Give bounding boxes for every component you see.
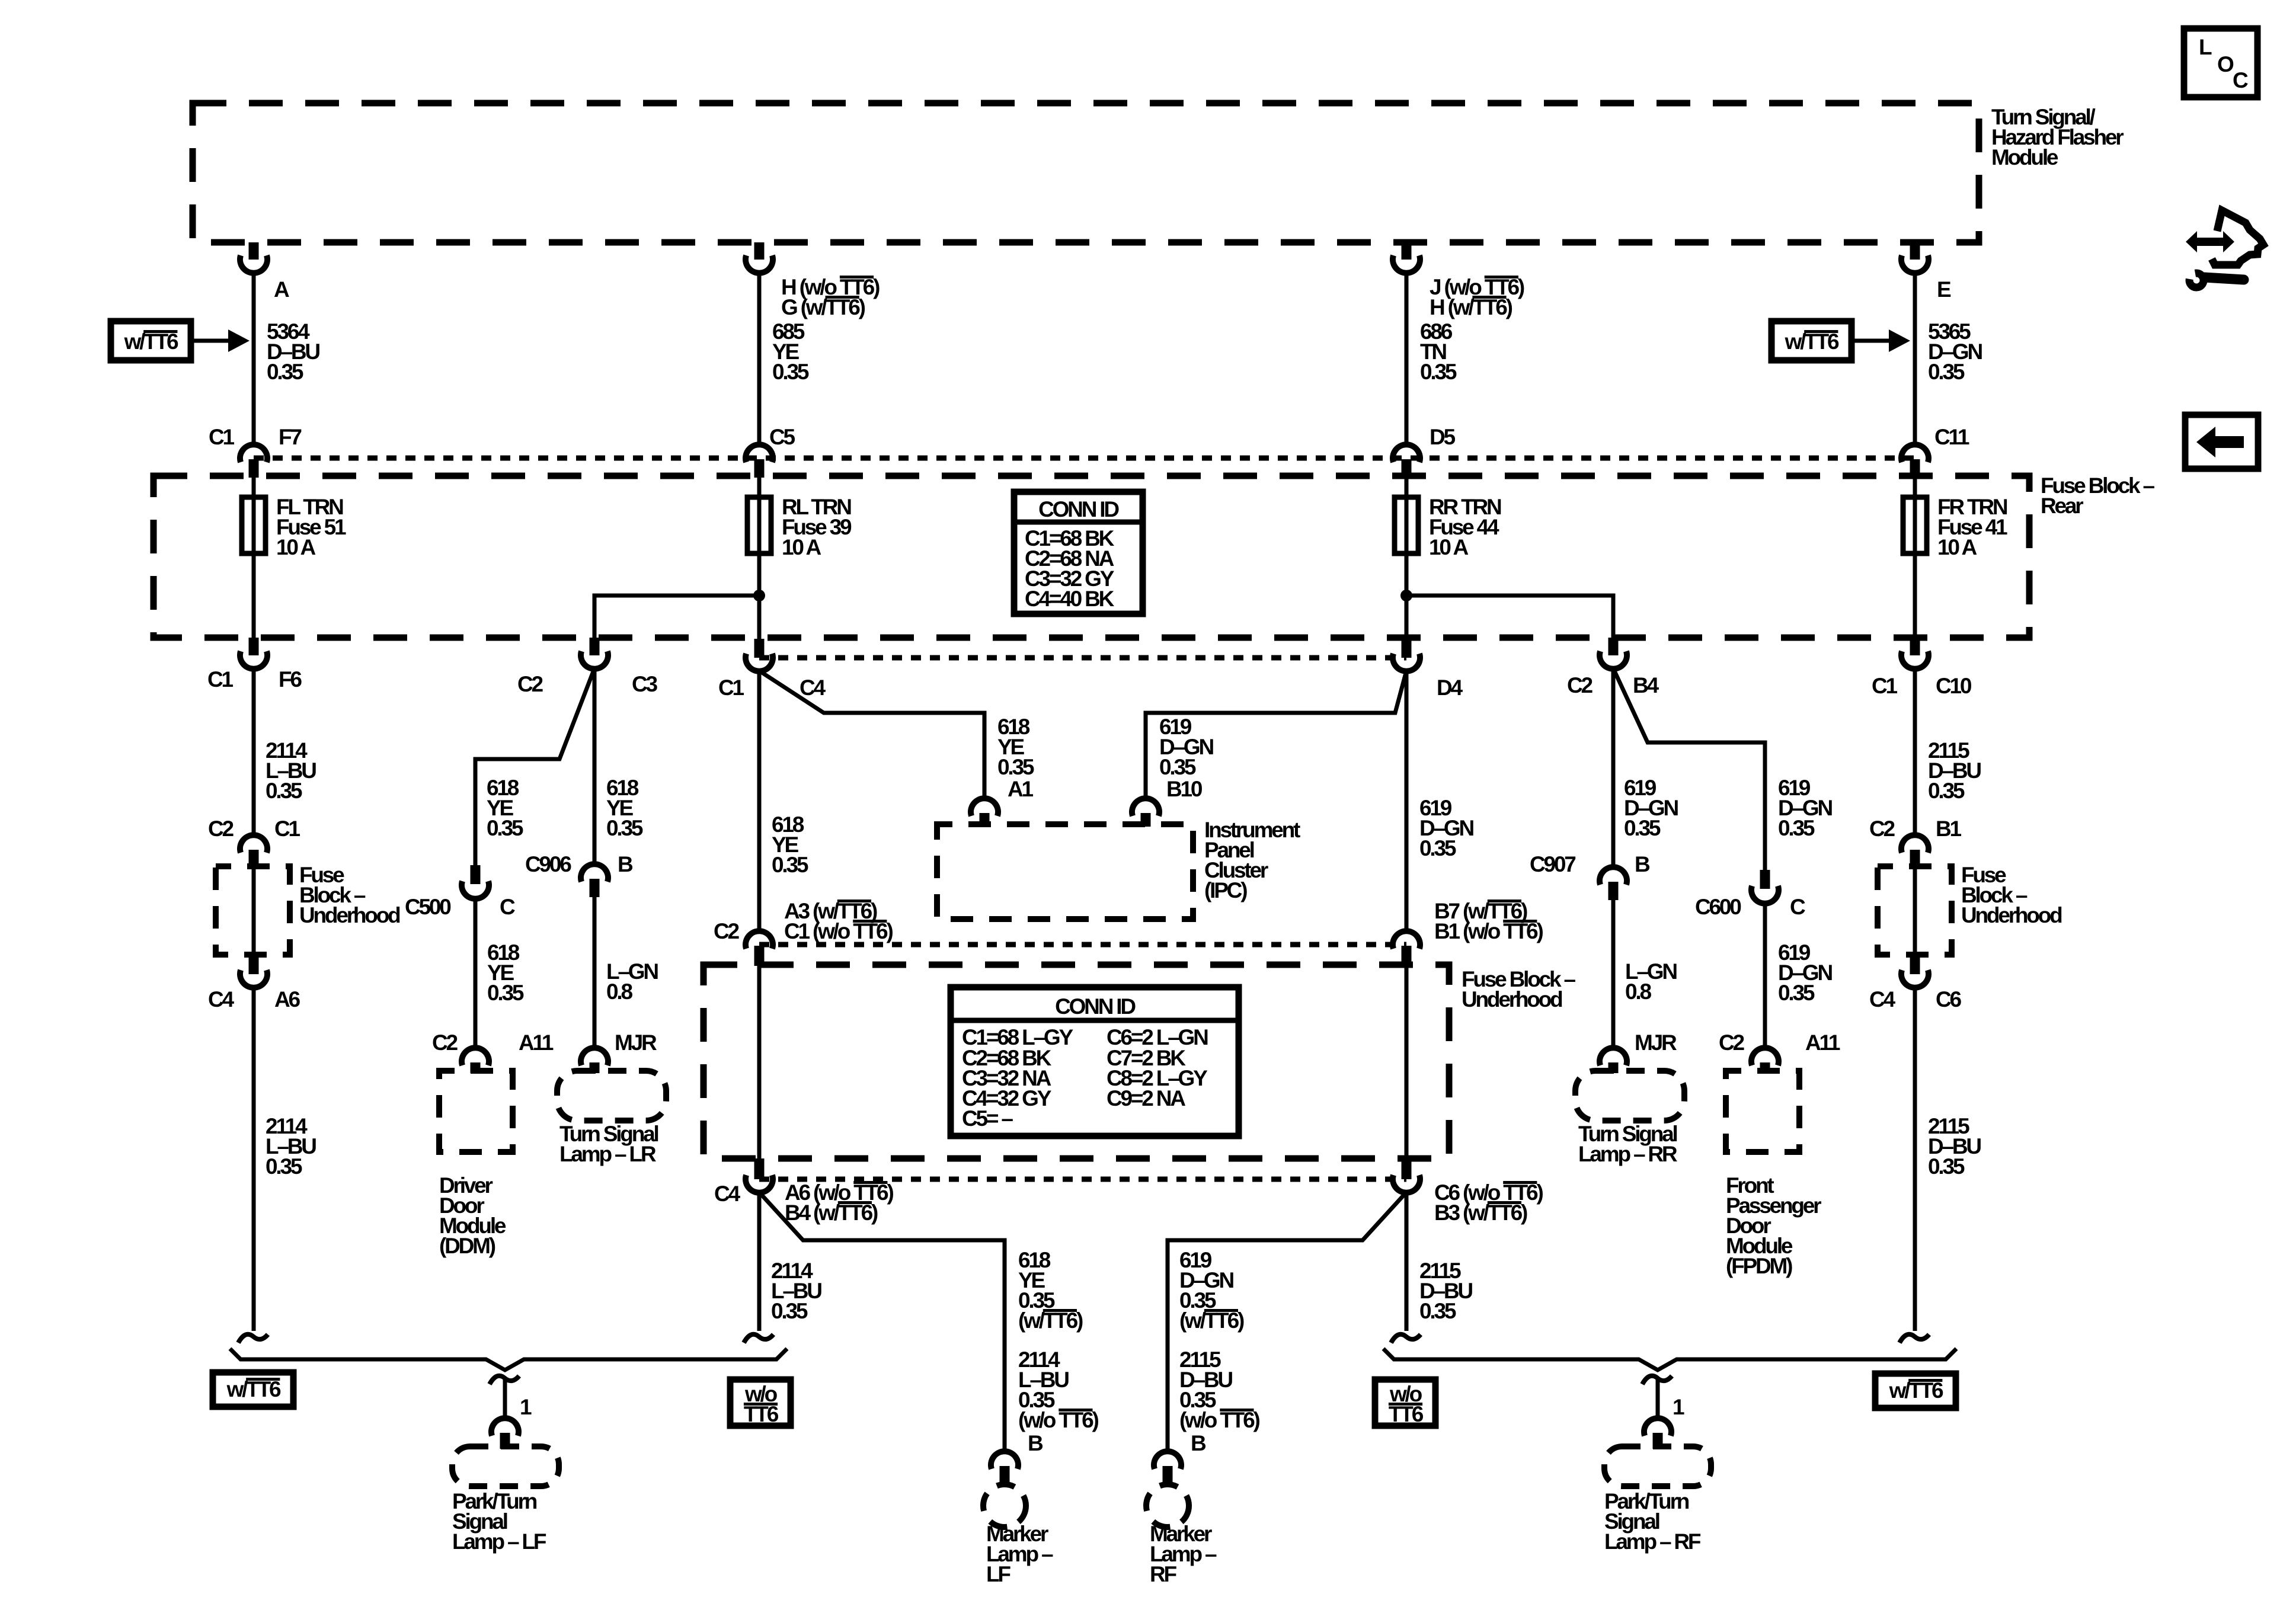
svg-text:0.35: 0.35 — [1778, 816, 1815, 840]
svg-text:C2: C2 — [432, 1030, 458, 1055]
svg-text:E: E — [1937, 277, 1951, 302]
svg-text:MJR: MJR — [615, 1030, 657, 1055]
wire W1 segment: pin A to fuse block C1/F7 — [252, 273, 256, 445]
lamp: Park/Turn Signal Lamp - RF (dotted box) — [1604, 1446, 1711, 1554]
wire W4 inside right small box — [1913, 867, 1917, 955]
svg-text:F7: F7 — [279, 425, 301, 449]
wire label 685 YE 0.35 (W2) — [772, 319, 809, 384]
table: CONN ID (underhood fuse block) — [951, 987, 1239, 1136]
wire label 619 D-GN 0.35 (B10 branch) — [1159, 715, 1213, 779]
connector C1/F7 into rear fuse block (W1) — [209, 425, 301, 478]
connector C907 pin B (in-line) — [1530, 852, 1650, 900]
splice squiggle at W3 end — [1391, 1334, 1421, 1343]
svg-text:0.35: 0.35 — [487, 816, 523, 840]
svg-text:C4: C4 — [208, 987, 235, 1012]
connector pin 1 into Park/Turn Signal Lamp RF — [1644, 1395, 1684, 1449]
svg-text:C4: C4 — [1869, 987, 1896, 1012]
wire: W3 down from D4 — [1405, 671, 1409, 931]
svg-text:1: 1 — [1673, 1395, 1684, 1419]
svg-text:C6: C6 — [1936, 987, 1962, 1012]
lamp: Park/Turn Signal Lamp - LF (dotted box) — [452, 1446, 559, 1554]
wire label 618 YE 0.35 (W2 mid) — [772, 812, 808, 877]
table: CONN ID (rear fuse block) — [1014, 492, 1143, 614]
svg-text:B: B — [1635, 852, 1650, 876]
connector row line (dotted) between C1/C4 and D4 — [759, 655, 1406, 661]
svg-text:w/TT6: w/TT6 — [226, 1377, 281, 1401]
wire label 618 YE 0.35 (below C500) — [487, 940, 524, 1005]
icon: LOC legend box — [2184, 28, 2257, 97]
connector C5 into rear fuse block (W2) — [746, 425, 795, 478]
wire label 2114 L-BU 0.35 (W1 upper) — [266, 738, 316, 803]
connector D4 out of rear fuse block (W3) — [1393, 639, 1463, 700]
wire: W2 down from C4 — [757, 671, 762, 931]
wire stub to Park/Turn Signal Lamp LF — [503, 1378, 507, 1418]
wire labels for Marker Lamp RF branch — [1179, 1248, 1259, 1432]
connector pins B7/B1 of W3 into underhood fuse block — [1393, 899, 1543, 966]
svg-text:C: C — [500, 895, 515, 919]
connector pin E of flasher module (W4) — [1901, 242, 1951, 302]
svg-text:w/TT6: w/TT6 — [1785, 329, 1839, 354]
splice squiggle at left lamp stub — [490, 1376, 519, 1384]
svg-text:0.35: 0.35 — [267, 360, 303, 384]
svg-text:0.35: 0.35 — [1420, 360, 1457, 384]
svg-text:C4: C4 — [800, 676, 826, 700]
wire W4 segment: pin E to fuse block C11 — [1913, 273, 1917, 445]
module: Fuse Block - Underhood (dashed box) — [703, 965, 1575, 1158]
svg-text:B1 (w/o TT6): B1 (w/o TT6) — [1434, 919, 1543, 943]
svg-text:(w/TT6): (w/TT6) — [1179, 1308, 1244, 1333]
wire label 618 YE 0.35 (above C500) — [487, 776, 523, 840]
svg-text:C500: C500 — [405, 895, 451, 919]
fuse F1: FL TRN Fuse 51 10 A — [242, 495, 346, 559]
svg-text:0.35: 0.35 — [1419, 1299, 1456, 1323]
connector pins J/H of flasher module (W3) — [1393, 242, 1524, 319]
connector pin B into Marker Lamp LF — [991, 1431, 1043, 1485]
wire labels for Marker Lamp LF branch — [1018, 1248, 1098, 1432]
connector pin B into Marker Lamp RF — [1154, 1431, 1206, 1485]
connector C4/C6 of W4 out of right underhood fuse block — [1869, 955, 1962, 1012]
connector C500 pin C (in-line) — [405, 865, 515, 919]
junction on W3 inside rear block — [1400, 590, 1412, 601]
svg-text:C1: C1 — [1872, 674, 1898, 698]
fuse F2: RL TRN Fuse 39 10 A — [747, 495, 852, 559]
svg-text:L: L — [2199, 35, 2212, 59]
connector C600 pin C (in-line) — [1695, 870, 1805, 919]
svg-text:0.35: 0.35 — [1928, 1154, 1965, 1179]
lamp: Marker Lamp - RF (dotted circle) — [1146, 1484, 1217, 1586]
wire W1: A6 down to left bus — [252, 987, 256, 1331]
svg-text:0.35: 0.35 — [1624, 816, 1661, 840]
wire: branch to Marker Lamp LF — [759, 1192, 1005, 1451]
wire: C600 to FPDM A11 — [1763, 904, 1767, 1048]
svg-text:CONN ID: CONN ID — [1038, 497, 1119, 521]
connector pin 1 into Park/Turn Signal Lamp LF — [491, 1395, 532, 1449]
connector pins H/G of flasher module (W2) — [746, 242, 880, 319]
svg-text:G (w/TT6): G (w/TT6) — [781, 295, 865, 319]
svg-text:0.35: 0.35 — [1928, 779, 1965, 803]
wire label 5364 D-BU 0.35 (W1) — [267, 319, 319, 384]
svg-text:0.35: 0.35 — [606, 816, 643, 840]
svg-text:RF: RF — [1150, 1562, 1177, 1586]
svg-text:(FPDM): (FPDM) — [1726, 1254, 1792, 1278]
svg-text:C10: C10 — [1936, 674, 1972, 698]
wire label 2115 D-BU 0.35 (W4 upper) — [1928, 738, 1981, 803]
wire W3 segment: pin J/H to fuse block D5 — [1405, 273, 1409, 445]
svg-text:10 A: 10 A — [276, 535, 315, 559]
callout box w/TT6 (left bus) — [213, 1372, 293, 1407]
connector C906 pin B (in-line) — [525, 852, 633, 897]
wire label 686 TN 0.35 (W3) — [1420, 319, 1457, 384]
module: Front Passenger Door Module FPDM (dashed box) — [1726, 1071, 1821, 1278]
connector C2/C1 of W1 into left underhood fuse block — [208, 817, 300, 867]
svg-text:C1: C1 — [274, 817, 300, 841]
svg-text:C1: C1 — [718, 676, 744, 700]
svg-text:w/TT6: w/TT6 — [1889, 1378, 1943, 1403]
svg-text:10 A: 10 A — [782, 535, 821, 559]
svg-text:Lamp – LF: Lamp – LF — [452, 1529, 546, 1554]
wire: C2 to C907 (vertical) — [1611, 668, 1616, 866]
svg-text:Underhood: Underhood — [1462, 987, 1562, 1012]
wire W4: C6 down to right bus — [1913, 987, 1917, 1331]
svg-text:A: A — [274, 277, 289, 302]
wire label 618 YE 0.35 (above C906) — [606, 776, 643, 840]
svg-text:O: O — [2217, 52, 2234, 76]
wire W3 inside underhood block — [1405, 966, 1409, 1158]
wire: W2 down to left bus — [757, 1192, 762, 1331]
junction on W2 inside rear block — [753, 590, 765, 601]
svg-text:0.35: 0.35 — [771, 1299, 808, 1323]
svg-text:C5: C5 — [769, 425, 795, 449]
lamp: Marker Lamp - LF (dotted circle) — [983, 1484, 1053, 1586]
wire: branch from W2 junction to C3 exit — [594, 596, 759, 638]
wire: C907 to Turn Signal Lamp RR — [1611, 900, 1616, 1048]
wire W3 inside rear fuse block — [1405, 478, 1409, 639]
splice squiggle at W1 end — [238, 1334, 268, 1343]
svg-text:(w/TT6): (w/TT6) — [1018, 1308, 1083, 1333]
svg-text:0.35: 0.35 — [997, 755, 1034, 779]
svg-text:0.35: 0.35 — [1419, 836, 1456, 860]
overline bars for TT6 RPO code — [143, 276, 1942, 1411]
module: Driver Door Module DDM (dashed box) — [439, 1071, 513, 1258]
connector pin A of flasher module (W1) — [240, 242, 289, 302]
svg-text:C2: C2 — [517, 672, 543, 696]
svg-text:0.8: 0.8 — [606, 980, 632, 1004]
splice squiggle at W2 end — [744, 1334, 773, 1343]
svg-text:C906: C906 — [525, 852, 571, 876]
svg-text:LF: LF — [986, 1562, 1011, 1586]
svg-text:CONN ID: CONN ID — [1055, 994, 1136, 1019]
module: Instrument Panel Cluster IPC (dashed box) — [937, 818, 1300, 919]
icon: back-arrow legend box — [2185, 415, 2258, 469]
callout box w/o TT6 (left bus) — [730, 1379, 791, 1426]
wire: branch C4 to IPC pin A1 — [759, 671, 984, 798]
svg-text:(IPC): (IPC) — [1204, 878, 1247, 902]
connector C1/C4 out of rear fuse block (W2) — [718, 639, 826, 700]
connector row line (dotted) at underhood block bottom — [759, 1177, 1406, 1182]
svg-text:0.35: 0.35 — [1928, 360, 1965, 384]
connector pin A1 into IPC — [971, 777, 1034, 827]
wire label 5365 D-GN 0.35 (W4) — [1928, 319, 1982, 384]
wire W1 inside rear fuse block — [252, 478, 256, 638]
svg-text:MJR: MJR — [1635, 1030, 1677, 1055]
svg-text:C2: C2 — [1869, 817, 1895, 841]
icon: powertrain symbol with double arrow and wrench — [2186, 210, 2263, 287]
svg-text:C11: C11 — [1934, 425, 1969, 449]
svg-text:B1: B1 — [1936, 817, 1962, 841]
callout box w/TT6 with arrow to W4 — [1771, 321, 1910, 360]
svg-text:B4: B4 — [1633, 673, 1659, 697]
connector C2/C3 out of rear fuse block — [517, 638, 658, 696]
wire W2 inside underhood block — [757, 966, 762, 1158]
callout box w/TT6 (right bus) — [1875, 1374, 1956, 1408]
connector C4 pins A6/B4 out of underhood block (W2) — [714, 1158, 893, 1225]
wire label 619 D-GN 0.35 (below C600) — [1778, 940, 1832, 1005]
wire label 619 D-GN 0.35 (above C907) — [1624, 776, 1678, 840]
wire W2 inside rear fuse block — [757, 478, 762, 639]
wire stub to Park/Turn Signal Lamp RF — [1656, 1378, 1660, 1418]
fuse F4: FR TRN Fuse 41 10 A — [1903, 495, 2007, 559]
svg-text:Rear: Rear — [2041, 494, 2083, 518]
svg-text:Underhood: Underhood — [1961, 903, 2062, 927]
module U1: Turn Signal/Hazard Flasher Module (dashed box) — [193, 103, 2124, 242]
svg-text:Lamp – LR: Lamp – LR — [559, 1142, 656, 1166]
wire: C3 to C906 (vertical) and branch to C500 — [593, 668, 597, 864]
connector pin MJR into Turn Signal Lamp RR — [1600, 1030, 1677, 1073]
svg-text:C907: C907 — [1530, 852, 1575, 876]
svg-text:B4 (w/TT6): B4 (w/TT6) — [785, 1201, 878, 1225]
svg-text:Lamp – RR: Lamp – RR — [1578, 1142, 1677, 1166]
svg-text:C2: C2 — [1567, 673, 1593, 697]
module: Fuse Block - Underhood right (small dashed box) — [1878, 863, 2062, 955]
svg-text:C: C — [2233, 68, 2248, 92]
bus wire right (W3 to W4) with end hooks and centre V — [1383, 1349, 1956, 1370]
svg-text:TT6: TT6 — [744, 1402, 779, 1426]
wire: branch to Marker Lamp RF — [1168, 1192, 1406, 1451]
svg-text:Underhood: Underhood — [299, 903, 400, 927]
svg-text:B: B — [1028, 1431, 1043, 1455]
svg-text:Lamp – RF: Lamp – RF — [1604, 1529, 1701, 1554]
wire label L-GN 0.8 (LR lamp) — [606, 959, 658, 1004]
svg-text:C3: C3 — [632, 672, 658, 696]
svg-text:C9=2 NA: C9=2 NA — [1107, 1086, 1185, 1110]
svg-text:C600: C600 — [1695, 895, 1741, 919]
svg-text:C1 (w/o TT6): C1 (w/o TT6) — [784, 919, 893, 943]
connector C6/B3 out of underhood block (W3) — [1393, 1158, 1543, 1225]
connector C1/C10 out of rear fuse block (W4) — [1872, 638, 1972, 698]
svg-text:0.35: 0.35 — [266, 779, 302, 803]
svg-text:w/TT6: w/TT6 — [124, 329, 178, 354]
svg-text:C2: C2 — [208, 817, 234, 841]
connector C2 pin A11 into FPDM — [1719, 1030, 1840, 1073]
wire W4: C1/C10 down to C2/B1 — [1913, 668, 1917, 834]
svg-text:C1: C1 — [209, 425, 235, 449]
svg-text:D5: D5 — [1430, 425, 1456, 449]
svg-text:B: B — [1191, 1431, 1206, 1455]
wire: branch D4 to IPC pin B10 — [1146, 671, 1406, 798]
wire label 619 D-GN 0.35 (above C600) — [1778, 776, 1832, 840]
svg-text:0.8: 0.8 — [1625, 980, 1651, 1004]
wire label 2114 L-BU 0.35 (W2 lower) — [771, 1259, 821, 1323]
wire W4 inside rear fuse block — [1913, 478, 1917, 638]
wire W2 segment: pin H/G to fuse block C5 — [757, 273, 762, 445]
svg-text:D4: D4 — [1437, 676, 1463, 700]
svg-text:(w/o TT6): (w/o TT6) — [1179, 1408, 1259, 1432]
wire label 2115 D-BU 0.35 (W4 lower) — [1928, 1114, 1981, 1179]
connector C2 pins A3/C1 of W2 into underhood fuse block — [714, 899, 893, 966]
wire: C906 to Turn Signal Lamp LR — [593, 897, 597, 1048]
svg-text:TT6: TT6 — [1389, 1402, 1424, 1426]
connector C1/F6 out of rear fuse block (W1) — [207, 638, 302, 692]
svg-text:C: C — [1790, 895, 1805, 919]
wire W1 inside left small box — [252, 867, 256, 955]
svg-text:(w/o TT6): (w/o TT6) — [1018, 1408, 1098, 1432]
connector C2/B1 of W4 into right underhood fuse block — [1869, 817, 1962, 867]
splice squiggle at W4 end — [1900, 1334, 1929, 1343]
wire label 618 YE 0.35 (A1 branch) — [997, 715, 1034, 779]
module: Fuse Block - Underhood left (small dashed box) — [216, 863, 400, 955]
connector C4/A6 of W1 out of left underhood fuse block — [208, 955, 300, 1012]
bus wire left (W1 to W2) with end hooks and centre V — [230, 1349, 787, 1370]
callout box w/o TT6 (right bus) — [1375, 1379, 1435, 1426]
module: Fuse Block - Rear (dashed box) — [154, 473, 2154, 638]
fuse F3: RR TRN Fuse 44 10 A — [1395, 495, 1501, 559]
svg-text:B: B — [618, 852, 633, 876]
wire label 619 D-GN 0.35 (W3 mid) — [1419, 796, 1473, 860]
svg-text:0.35: 0.35 — [1778, 981, 1815, 1005]
svg-text:0.35: 0.35 — [1159, 755, 1196, 779]
svg-text:C2: C2 — [1719, 1030, 1745, 1055]
connector D5 into rear fuse block (W3) — [1393, 425, 1456, 478]
connector pin MJR into Turn Signal Lamp LR — [581, 1030, 657, 1073]
connector row line (dotted) at rear fuse block C1 — [254, 456, 1915, 461]
svg-text:F6: F6 — [279, 667, 302, 692]
svg-text:0.35: 0.35 — [772, 360, 809, 384]
svg-text:B3 (w/TT6): B3 (w/TT6) — [1434, 1201, 1527, 1225]
connector C2 pin A11 into DDM — [432, 1030, 554, 1073]
wire: branch B4 to C600 — [1613, 668, 1765, 870]
svg-text:0.35: 0.35 — [487, 981, 524, 1005]
wire: W3 down to right bus — [1405, 1192, 1409, 1331]
wire label L-GN 0.8 (RR lamp) — [1625, 959, 1677, 1004]
svg-text:1: 1 — [520, 1395, 532, 1419]
svg-text:A11: A11 — [519, 1030, 554, 1055]
svg-text:H (w/TT6): H (w/TT6) — [1430, 295, 1512, 319]
svg-text:C4=40 BK: C4=40 BK — [1025, 587, 1115, 611]
svg-text:0.35: 0.35 — [266, 1154, 302, 1179]
wire label 2114 L-BU 0.35 (W1 lower) — [266, 1114, 316, 1179]
svg-text:A11: A11 — [1805, 1030, 1840, 1055]
connector C2/B4 out of rear fuse block — [1567, 638, 1659, 697]
svg-text:0.35: 0.35 — [772, 853, 808, 877]
wire: C500 to DDM A11 — [474, 899, 478, 1048]
lamp: Turn Signal Lamp - LR (dotted box) — [557, 1071, 666, 1166]
svg-text:(DDM): (DDM) — [439, 1234, 495, 1258]
splice squiggle at right lamp stub — [1642, 1376, 1672, 1384]
callout box w/TT6 with arrow to W1 — [111, 321, 250, 360]
connector pin B10 into IPC — [1132, 777, 1203, 827]
svg-text:10 A: 10 A — [1429, 535, 1468, 559]
svg-text:A1: A1 — [1008, 777, 1034, 801]
wire W1: C1/F6 down to C2/C1 — [252, 668, 256, 834]
connector C11 into rear fuse block (W4) — [1901, 425, 1969, 478]
wire: branch from W3 junction to B4 exit — [1406, 596, 1613, 638]
wire label 2115 D-BU 0.35 (W3 lower) — [1419, 1259, 1472, 1323]
connector row line (dotted) at underhood block top — [759, 942, 1406, 948]
svg-text:Module: Module — [1991, 145, 2058, 169]
svg-text:C5= –: C5= – — [962, 1106, 1013, 1131]
svg-text:A6: A6 — [274, 987, 300, 1012]
svg-text:C1: C1 — [207, 667, 234, 692]
svg-text:C4: C4 — [714, 1182, 741, 1206]
lamp: Turn Signal Lamp - RR (dotted box) — [1575, 1071, 1684, 1166]
svg-text:C2: C2 — [714, 919, 740, 943]
svg-text:B10: B10 — [1166, 777, 1203, 801]
svg-text:10 A: 10 A — [1937, 535, 1977, 559]
